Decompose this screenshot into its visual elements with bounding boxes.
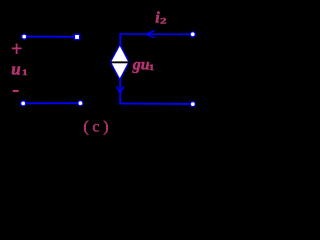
node: top-left terminal (open circle) xyxy=(22,34,27,39)
dependent source middle bar xyxy=(110,61,129,63)
node: top-right terminal (open circle) xyxy=(190,32,195,37)
wire: bottom-right horizontal xyxy=(119,103,191,106)
svg-text:1: 1 xyxy=(22,69,28,78)
arrow: source current direction (pointing down) xyxy=(117,87,124,94)
wire: top-left port lead xyxy=(25,36,75,38)
wire: top-right horizontal xyxy=(120,33,191,35)
wire: vertical branch below source xyxy=(119,79,121,105)
node: bottom-left inner terminal (open circle) xyxy=(78,101,83,106)
arrow: i2 current direction (pointing left) xyxy=(146,31,155,38)
svg-text:u: u xyxy=(11,60,20,79)
dependent source gu1 (diamond) xyxy=(110,45,129,80)
wire: vertical branch above source xyxy=(119,33,121,46)
svg-text:gu: gu xyxy=(132,56,150,73)
svg-text:2: 2 xyxy=(160,17,167,26)
node: bottom-left terminal (open circle) xyxy=(21,101,26,106)
node: top-left inner square terminal xyxy=(74,34,79,39)
label: + polarity of u1 xyxy=(12,44,22,55)
label: - polarity of u1 xyxy=(13,90,19,92)
node: bottom-right terminal (open circle) xyxy=(190,102,195,107)
svg-text:(c): (c) xyxy=(83,118,112,135)
wire: bottom-left port lead xyxy=(24,102,79,104)
svg-text:1: 1 xyxy=(149,63,155,72)
